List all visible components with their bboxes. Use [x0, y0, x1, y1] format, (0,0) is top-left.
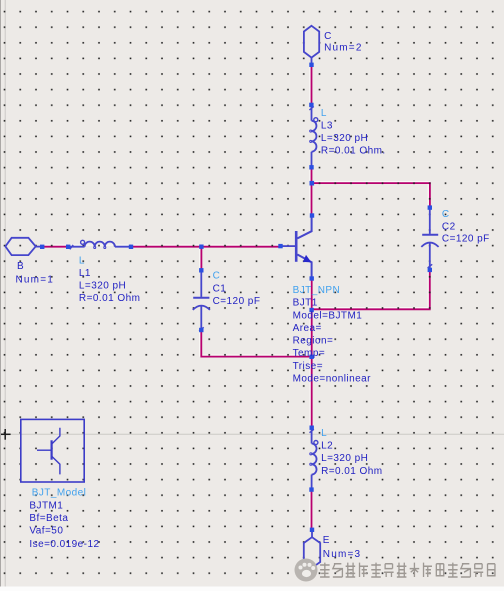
svg-text:Num=3: Num=3: [323, 549, 362, 560]
svg-text:L2: L2: [321, 441, 333, 452]
svg-text:L: L: [321, 108, 327, 119]
svg-text:L=320 pH: L=320 pH: [321, 133, 368, 144]
svg-text:C: C: [213, 271, 221, 282]
svg-text:Trise=: Trise=: [293, 361, 323, 372]
svg-text:Vaf=50: Vaf=50: [29, 526, 63, 537]
svg-text:C1: C1: [213, 283, 227, 294]
svg-text:BJT1: BJT1: [293, 298, 318, 309]
svg-text:Temp=: Temp=: [293, 348, 326, 359]
svg-text:E: E: [323, 535, 330, 546]
svg-text:R=0.01 Ohm.: R=0.01 Ohm.: [321, 145, 386, 156]
svg-text:Model=BJTM1: Model=BJTM1: [293, 310, 363, 321]
svg-text:BJT_NPN: BJT_NPN: [293, 285, 341, 296]
svg-text:Num=1: Num=1: [16, 274, 55, 285]
svg-text:L=320 pH: L=320 pH: [321, 453, 368, 464]
svg-text:BJT_Model: BJT_Model: [32, 488, 87, 499]
svg-text:L1: L1: [79, 268, 91, 279]
svg-text:B: B: [17, 261, 24, 272]
svg-text:C2: C2: [442, 221, 456, 232]
svg-text:C=120 pF: C=120 pF: [213, 296, 261, 307]
svg-text:R=0.01 Ohm: R=0.01 Ohm: [79, 293, 140, 304]
svg-text:L3: L3: [321, 120, 333, 131]
svg-text:BJTM1: BJTM1: [29, 501, 63, 512]
svg-text:L=320 pH: L=320 pH: [79, 281, 126, 292]
svg-text:Ise=0.019e-12: Ise=0.019e-12: [29, 539, 99, 550]
svg-text:Num=2: Num=2: [324, 43, 363, 54]
svg-text:Bf=Beta: Bf=Beta: [29, 513, 68, 524]
svg-text:C: C: [324, 31, 332, 42]
svg-text:C: C: [442, 209, 450, 220]
svg-text:Area=: Area=: [293, 323, 322, 334]
svg-text:L: L: [79, 255, 85, 266]
svg-text:Region=: Region=: [293, 335, 334, 346]
svg-text:C=120 pF: C=120 pF: [442, 234, 490, 245]
svg-text:L: L: [321, 428, 327, 439]
svg-text:R=0.01 Ohm: R=0.01 Ohm: [321, 466, 382, 477]
svg-text:Mode=nonlinear: Mode=nonlinear: [293, 374, 372, 385]
